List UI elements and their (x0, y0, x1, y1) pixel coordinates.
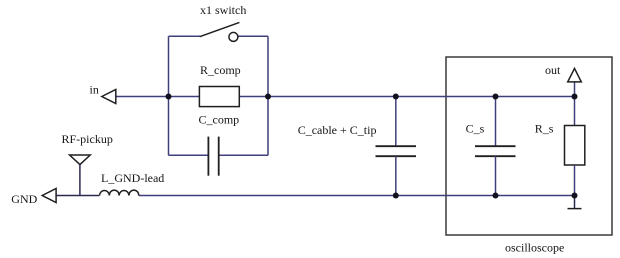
junction dot C (C_cable top) (393, 94, 399, 100)
svg-text:GND: GND (11, 192, 37, 206)
svg-text:R_s: R_s (535, 122, 554, 136)
svg-text:L_GND-lead: L_GND-lead (101, 171, 164, 185)
wire comp-loop bottom right segment (219, 154, 268, 156)
svg-text:out: out (545, 63, 561, 77)
svg-text:R_comp: R_comp (200, 63, 241, 77)
node in (90, 83, 116, 104)
junction dot B (comp-loop right) (265, 94, 271, 100)
junction dot E (C_s top) (493, 94, 499, 100)
junction dot F (C_s bottom) (493, 193, 499, 199)
inductor L_GND-lead (100, 171, 165, 195)
wire comp-loop top right segment (238, 35, 268, 37)
capacitor C_comp (199, 112, 240, 175)
wire ground horizontal left of inductor (56, 195, 100, 197)
wire comp-loop bottom left segment (169, 154, 209, 156)
svg-text:x1 switch: x1 switch (200, 3, 246, 17)
wire main signal horizontal (116, 96, 575, 98)
svg-text:C_cable + C_tip: C_cable + C_tip (298, 123, 377, 137)
resistor R_s (535, 82, 585, 196)
svg-text:RF-pickup: RF-pickup (62, 132, 113, 146)
junction dot A (in / comp-loop left) (166, 94, 172, 100)
capacitor C_cable + C_tip (298, 97, 416, 196)
svg-text:C_s: C_s (466, 122, 485, 136)
node GND (11, 189, 56, 207)
antenna RF-pickup (62, 132, 113, 196)
capacitor C_s (466, 97, 516, 196)
wire ground horizontal right of inductor (139, 195, 575, 197)
wire comp-loop top left segment (169, 35, 201, 37)
junction dot D (C_cable bottom) (393, 193, 399, 199)
oscilloscope box (446, 57, 612, 235)
wire comp-loop right vertical (267, 36, 269, 155)
switch x1 (200, 3, 247, 41)
svg-text:in: in (90, 83, 99, 97)
node out (545, 63, 581, 82)
svg-text:C_comp: C_comp (199, 112, 240, 126)
resistor R_comp (199, 63, 240, 106)
ground (568, 196, 582, 209)
wire comp-loop left vertical (168, 36, 170, 155)
junction dot H (R_s bottom / ground) (572, 193, 578, 199)
svg-text:oscilloscope: oscilloscope (505, 241, 564, 255)
junction dot G (R_s top / out) (572, 94, 578, 100)
